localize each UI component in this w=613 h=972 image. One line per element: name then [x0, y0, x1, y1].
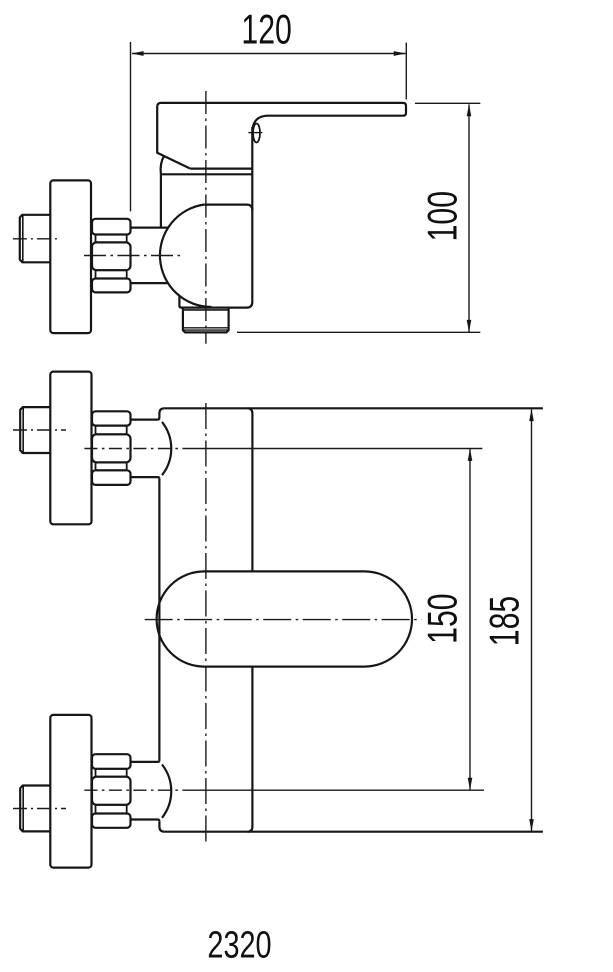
- pipe thread end line (plan): [22, 215, 24, 261]
- outlet thread relief lines: [183, 327, 228, 329]
- front body top-left corner and upper union: [131, 408, 164, 419]
- dimension 120: dimension line: [132, 53, 406, 55]
- valve body circle (plan view): [160, 205, 212, 308]
- arrow 120 left: [131, 51, 143, 56]
- cap bottom edge: [190, 168, 252, 170]
- front body vertical centerline: [205, 403, 207, 842]
- arrow 100 up: [467, 104, 472, 116]
- upper union flare arc: [162, 422, 171, 475]
- svg-text:120: 120: [241, 6, 291, 53]
- upper inlet axis centerline + 150 extension: [84, 448, 190, 450]
- dimension 100: extension lines: [415, 102, 480, 104]
- lever capsule (front view): [157, 571, 412, 666]
- shower outlet nipple (plan view): [183, 308, 229, 333]
- plan inlet axis centerline: [84, 255, 183, 257]
- dimension 120: extension lines: [130, 42, 132, 212]
- hex nut (plan view): [92, 219, 131, 293]
- outlet lip line: [183, 309, 229, 311]
- arrow 150 up: [468, 449, 473, 461]
- lower union upper edge: [131, 760, 159, 762]
- valve body bottom edge (plan view): [179, 295, 252, 308]
- arrow 185 down: [529, 819, 534, 831]
- svg-text:100: 100: [419, 191, 466, 241]
- upper pipe centerline (front): [13, 429, 66, 431]
- svg-text:185: 185: [480, 596, 527, 646]
- lower union flare arc: [162, 765, 171, 818]
- cartridge dome arc (plan view): [161, 156, 164, 174]
- lever cap (plan view): [157, 103, 190, 169]
- upper pipe thread end line: [22, 408, 24, 453]
- svg-text:150: 150: [419, 593, 466, 643]
- lower pipe thread end line: [22, 786, 24, 831]
- threaded wall pipe (plan view): [20, 215, 51, 262]
- front body bottom edge + 185 extension: [164, 831, 543, 833]
- arrow 100 down: [467, 320, 472, 332]
- front body bottom-right corner: [247, 827, 252, 832]
- valve body right edge / lever neck edge (plan view): [251, 127, 253, 302]
- upper union lower edge: [131, 477, 159, 479]
- dimension 185: dimension line: [531, 409, 533, 831]
- capsule axis centerline: [145, 619, 422, 621]
- cartridge ring line: [161, 173, 253, 175]
- lever handle bar (plan view): [161, 103, 406, 129]
- front body left bottom corner: [159, 821, 164, 831]
- lower hex nut (front view): [92, 754, 131, 828]
- front view: body top edge + 185 extension: [164, 407, 543, 409]
- upper hex nut (front view): [92, 411, 131, 485]
- lower threaded wall pipe (front view): [20, 786, 50, 832]
- dimension 150: dimension line: [469, 449, 471, 790]
- arrow 150 down: [468, 778, 473, 790]
- arrow 120 right: [394, 51, 406, 56]
- plan pipe centerline: [13, 238, 60, 240]
- body column left edge (plan view): [160, 174, 162, 227]
- valve body block top edge (plan view): [204, 205, 252, 211]
- plan body vertical centerline: [205, 91, 207, 344]
- lower union lower edge: [131, 820, 159, 822]
- pivot tick line: [248, 132, 262, 134]
- dimension 100: dimension line: [468, 104, 470, 332]
- front body top-right corner: [247, 408, 252, 413]
- lower pipe centerline (front): [13, 808, 66, 810]
- upper wall plate (front view): [50, 372, 91, 525]
- arrow 185 up: [529, 409, 534, 421]
- upper threaded wall pipe (front view): [20, 407, 50, 453]
- lower wall plate (front view): [50, 715, 91, 868]
- lever pivot pin ellipse (plan view): [253, 124, 260, 143]
- lower inlet axis centerline + 150 extension: [84, 789, 190, 791]
- front body left edge (visible through capsule): [158, 479, 160, 760]
- wall plate (plan view): [50, 180, 91, 333]
- union connector edges (plan view): [131, 227, 169, 229]
- svg-text:2320: 2320: [207, 924, 271, 967]
- front body right edge: [251, 414, 253, 827]
